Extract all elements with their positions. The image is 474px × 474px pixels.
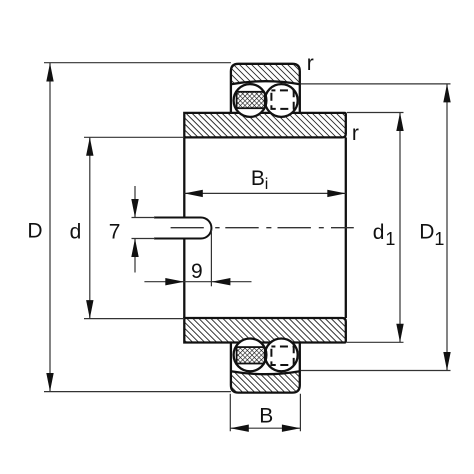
outer ring bottom outline bbox=[231, 343, 300, 393]
outer ring top outline bbox=[231, 64, 300, 113]
svg-text:r: r bbox=[352, 122, 359, 145]
cage hidden outline (dashed) top bbox=[271, 90, 293, 109]
svg-text:d: d bbox=[70, 220, 82, 243]
ball top-left bbox=[234, 84, 267, 117]
dimension Bi line bbox=[184, 192, 345, 194]
svg-text:D: D bbox=[419, 220, 434, 243]
svg-text:i: i bbox=[265, 176, 269, 193]
dimension D line bbox=[49, 63, 51, 392]
bore left edge wire bbox=[183, 137, 185, 318]
cage section (cross-hatched) bottom bbox=[237, 347, 265, 363]
dimension D1 extension top wire bbox=[301, 83, 451, 85]
outer ring bottom section hatch bbox=[231, 371, 300, 392]
outer ring top section hatch bbox=[231, 64, 300, 84]
svg-text:7: 7 bbox=[109, 220, 121, 243]
svg-text:D: D bbox=[27, 220, 42, 243]
dimension 7 extension wires bbox=[132, 218, 156, 239]
centerline bbox=[171, 227, 354, 229]
bore right edge wire bbox=[345, 137, 347, 318]
dimension D1 extension bottom wire bbox=[301, 370, 451, 372]
inner ring bottom section bbox=[184, 318, 345, 343]
dimension d1 extension bottom wire bbox=[347, 341, 404, 343]
cage section (cross-hatched) top bbox=[237, 92, 265, 108]
dimension 9 extension wire bbox=[210, 230, 212, 286]
svg-text:r: r bbox=[307, 52, 314, 75]
dimension d extension bottom wire bbox=[84, 318, 184, 320]
dimension 7 line bbox=[134, 186, 136, 273]
dimension d line bbox=[89, 137, 91, 318]
dimension d1 line bbox=[399, 113, 401, 343]
dimension 9 line bbox=[144, 281, 251, 283]
outer ring bottom raceway arc bbox=[231, 371, 300, 374]
locating slot tab bbox=[154, 218, 211, 239]
cage hidden outline (dashed) bottom bbox=[271, 347, 293, 366]
ball top-right bbox=[265, 84, 298, 117]
svg-text:B: B bbox=[259, 404, 273, 427]
dimension B extension wires bbox=[230, 394, 300, 432]
ball top-left outline bbox=[234, 84, 267, 117]
svg-text:B: B bbox=[251, 167, 265, 190]
dimension d extension top wire bbox=[84, 136, 184, 138]
dimension D1 line bbox=[446, 84, 448, 371]
svg-text:d: d bbox=[373, 221, 385, 244]
ball bottom-left outline bbox=[234, 339, 267, 372]
dimension d1 extension top wire bbox=[347, 112, 404, 114]
ball bottom-left bbox=[234, 339, 267, 372]
inner ring top section bbox=[184, 113, 345, 137]
svg-text:1: 1 bbox=[434, 229, 444, 249]
dimension B line bbox=[230, 427, 300, 429]
outer ring top raceway arc bbox=[231, 81, 300, 84]
svg-text:9: 9 bbox=[191, 260, 203, 283]
svg-text:1: 1 bbox=[385, 229, 395, 249]
dimension D extension top wire bbox=[44, 62, 231, 64]
dimension D extension bottom wire bbox=[44, 391, 231, 393]
ball bottom-right bbox=[265, 339, 298, 372]
